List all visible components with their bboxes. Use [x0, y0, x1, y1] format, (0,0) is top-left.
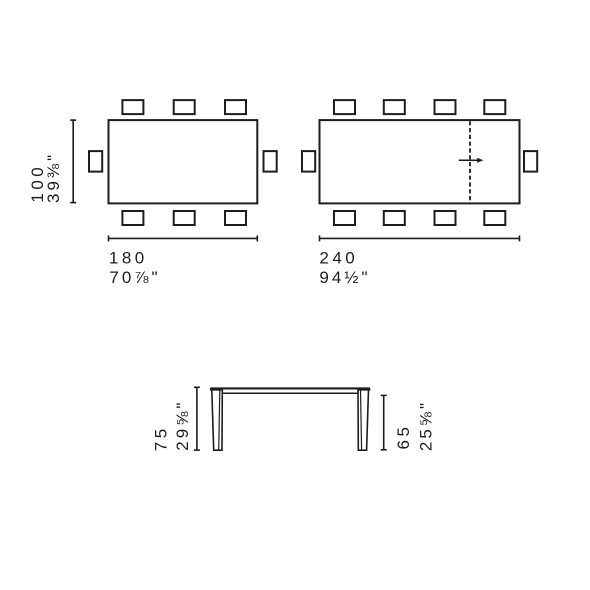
svg-text:75: 75 [152, 425, 171, 451]
table 1 top-view (180x100) [109, 120, 258, 203]
svg-text:180: 180 [109, 248, 148, 267]
vertical dimension line 65 (elevation right) [381, 395, 387, 449]
elevation: left leg [212, 390, 223, 450]
chair bottom-3 (table 1) [225, 211, 246, 225]
chair top-4 (table 2) [484, 100, 505, 114]
svg-text:25⅝": 25⅝" [417, 400, 436, 451]
chair right (table 1) [264, 151, 277, 172]
elevation: left leg corner edge [219, 390, 220, 450]
horizontal dimension line 180 (table 1) [109, 235, 258, 241]
chair top-2 (table 2) [384, 100, 405, 114]
elevation: table top slab [210, 388, 370, 391]
chair top-2 (table 1) [174, 100, 195, 114]
chair left (table 2) [302, 151, 315, 172]
chair bottom-1 (table 1) [122, 211, 143, 225]
chair top-1 (table 2) [334, 100, 355, 114]
horizontal dimension line 240 (table 2) [320, 235, 520, 241]
vertical dimension line 75 (elevation left) [194, 387, 200, 450]
chair bottom-1 (table 2) [334, 211, 355, 225]
svg-text:65: 65 [394, 424, 413, 450]
extension arrow [459, 158, 484, 163]
svg-text:240: 240 [319, 248, 358, 267]
chair bottom-2 (table 1) [174, 211, 195, 225]
chair top-1 (table 1) [122, 100, 143, 114]
chair bottom-3 (table 2) [435, 211, 456, 225]
chair right (table 2) [524, 151, 537, 172]
svg-text:29⅝": 29⅝" [173, 400, 192, 451]
elevation: right leg [358, 390, 369, 450]
svg-text:94½": 94½" [319, 268, 370, 287]
elevation: table top underside line [222, 392, 358, 394]
table 2 top-view (240x100) [320, 120, 520, 203]
chair top-3 (table 1) [225, 100, 246, 114]
extension split dashed line [469, 121, 471, 202]
elevation: right leg corner edge [361, 390, 362, 450]
svg-text:70⅞": 70⅞" [109, 268, 160, 287]
chair top-3 (table 2) [435, 100, 456, 114]
chair left (table 1) [89, 151, 102, 172]
vertical dimension line 100 (table 1) [70, 120, 76, 203]
chair bottom-4 (table 2) [484, 211, 505, 225]
svg-text:39⅜": 39⅜" [44, 152, 63, 203]
chair bottom-2 (table 2) [384, 211, 405, 225]
